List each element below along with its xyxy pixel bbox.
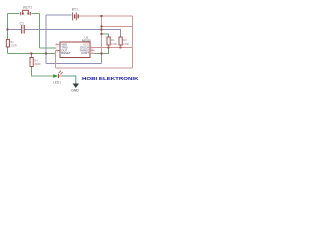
wire: green horizontal into IC TRIG pin <box>40 47 57 49</box>
svg-text:RESET: RESET <box>61 51 71 55</box>
resistor R3 <box>119 37 122 48</box>
label R4 value <box>34 59 40 67</box>
svg-text:KEY1: KEY1 <box>23 6 32 10</box>
svg-text:100K: 100K <box>111 42 117 46</box>
label R1 value <box>111 38 117 46</box>
svg-text:HOBI ELEKTRONIK: HOBI ELEKTRONIK <box>82 76 139 81</box>
op-amp U1 box (555 timer) <box>56 42 95 58</box>
wire: red vertical x=101 <box>101 16 103 54</box>
label R2 value <box>10 40 16 48</box>
wire: green left vertical R2 bottom to corner <box>7 47 9 54</box>
svg-text:R3: R3 <box>123 38 127 42</box>
wire: blue horizontal under IC <box>46 63 102 65</box>
wire: red DISCH row to right edge <box>95 47 133 49</box>
node: junction dot battery rail x=101 <box>101 15 103 17</box>
svg-text:C1: C1 <box>20 22 24 26</box>
node: junction dot blue tee on reset row <box>45 53 47 55</box>
svg-text:100R: 100R <box>10 44 16 48</box>
resistor R4 <box>30 58 33 67</box>
ground <box>73 84 79 89</box>
battery BT1 <box>73 12 79 20</box>
svg-text:100K: 100K <box>123 42 129 46</box>
node: junction dot R1 bottom <box>108 47 110 49</box>
wire: green vertical from button corner down to TRIG row <box>39 14 41 49</box>
wire: green top-left horizontal to button <box>8 13 20 15</box>
wire: green VCC branch to R1 top <box>102 34 109 37</box>
wire: blue C1 right side continuing to R3 top drop <box>25 30 121 38</box>
wire: red OUT pin drop to bottom rail <box>55 51 57 69</box>
svg-text:R1: R1 <box>111 38 115 42</box>
svg-text:BT1: BT1 <box>72 8 78 12</box>
wire: green CONT pin to rise at R1 bottom <box>95 48 109 54</box>
wire: green R4 bottom down then right to LED anode <box>32 67 54 77</box>
node: junction dot R3 bottom <box>120 47 122 49</box>
wire: red right edge vertical <box>132 16 134 68</box>
label R3 value <box>123 38 129 46</box>
wire: blue long vertical x=46 <box>45 15 47 64</box>
svg-text:LED1: LED1 <box>53 80 61 84</box>
svg-text:CONT: CONT <box>81 51 89 55</box>
wire: green button right to corner <box>32 13 40 15</box>
wire: green left vertical from corner down to R2 <box>7 14 9 40</box>
pushbutton KEY1 <box>21 10 31 15</box>
wire: green stub down to R4 top <box>31 54 33 58</box>
capacitor C1 <box>22 25 25 34</box>
svg-text:R2: R2 <box>10 40 14 44</box>
node: junction dot inner branch x=101 y=26.5 <box>101 26 103 28</box>
resistor R1 <box>107 37 110 48</box>
wire: red bottom rail under IC <box>56 67 133 69</box>
wire: blue rise to CONT junction <box>101 54 103 64</box>
wire: teal LED cathode to ground drop <box>62 76 76 84</box>
svg-text:GND: GND <box>71 89 79 93</box>
node: junction dot left C1 tee <box>7 29 9 31</box>
wire: red battery plus rail to right edge <box>79 15 133 17</box>
wire: red LED cathode stub <box>59 75 63 77</box>
LED LED1 <box>53 70 63 78</box>
node: junction dot CONT y=53.5 <box>101 53 103 55</box>
node: junction dot blue row x=101 y=29.5 <box>101 29 103 31</box>
svg-text:R4: R4 <box>34 59 38 63</box>
wire: green bottom horizontal to IC RESET pin <box>8 53 57 55</box>
wire: blue top horizontal to battery <box>46 14 72 16</box>
node: junction dot VCC branch y=34 <box>101 33 103 35</box>
node: junction dot R4 tee <box>30 53 32 55</box>
wire: blue C1 row from left net through C1 to R3 top <box>8 29 22 31</box>
wire: red inner branch y=26.5 <box>102 26 133 28</box>
resistor R2 <box>6 40 9 48</box>
svg-text:330R: 330R <box>34 62 40 66</box>
wire: red OUT pin stub <box>56 50 61 52</box>
